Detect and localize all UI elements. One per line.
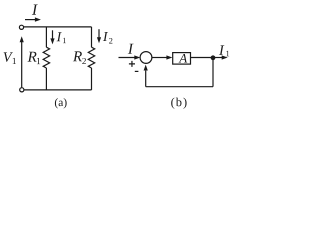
label I (input of block diagram b) bbox=[128, 44, 134, 54]
voltage arrow V1 (points up between terminals) bbox=[21, 42, 23, 88]
label I (current into circuit a) bbox=[32, 5, 38, 15]
terminal (bottom-left open circle) bbox=[20, 88, 24, 92]
label I2 bbox=[103, 32, 108, 41]
arrow summer to block A bbox=[152, 57, 167, 59]
label V1 bbox=[4, 52, 13, 61]
plus sign at summer input bbox=[129, 61, 135, 67]
wire top rail bbox=[24, 26, 92, 28]
wire branch 1 upper bbox=[45, 27, 47, 47]
node junction dot bbox=[211, 55, 216, 60]
wire feedback right vertical bbox=[212, 58, 214, 87]
wire branch 2 upper (right rail) bbox=[91, 27, 93, 47]
resistor R1 bbox=[43, 47, 49, 68]
label A bbox=[179, 54, 188, 63]
caption (a) bbox=[55, 98, 67, 108]
minus sign at feedback input bbox=[135, 70, 139, 72]
wire block A to output bbox=[191, 57, 214, 59]
label I1 bbox=[57, 32, 62, 41]
label I1 (output) bbox=[219, 45, 224, 54]
block A bbox=[173, 53, 191, 65]
arrow output I1 bbox=[213, 57, 223, 59]
summing junction U1 bbox=[140, 52, 152, 64]
terminal (top-left open circle) bbox=[19, 25, 23, 29]
caption (b) bbox=[171, 98, 186, 109]
wire feedback bottom horizontal bbox=[146, 86, 213, 88]
wire branch 2 lower bbox=[91, 68, 93, 90]
resistor R2 bbox=[88, 47, 94, 68]
label R1 bbox=[27, 52, 36, 62]
arrow for branch current I2 bbox=[98, 29, 100, 38]
label R2 bbox=[73, 51, 82, 61]
wire branch 1 lower bbox=[45, 68, 47, 90]
arrow for branch current I1 bbox=[52, 30, 54, 39]
arrow input I into summer bbox=[119, 57, 136, 59]
wire feedback left vertical bbox=[145, 71, 147, 87]
wire bottom rail bbox=[24, 89, 92, 91]
arrow for current I bbox=[25, 19, 36, 21]
